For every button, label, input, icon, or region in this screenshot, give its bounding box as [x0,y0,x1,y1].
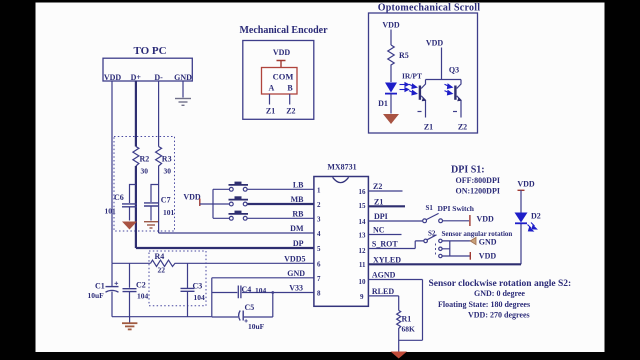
svg-text:A: A [269,84,275,93]
svg-text:VDD5: VDD5 [284,254,305,263]
svg-text:VDD: VDD [517,180,535,189]
svg-text:104: 104 [194,293,206,302]
svg-text:TO PC: TO PC [133,45,166,57]
svg-text:Z1: Z1 [374,197,383,206]
svg-text:NC: NC [373,226,385,235]
svg-text:5: 5 [317,245,321,253]
svg-text:9: 9 [360,293,364,301]
svg-text:15: 15 [359,202,367,210]
svg-text:VDD: VDD [382,21,400,30]
svg-text:S_ROT: S_ROT [372,240,398,249]
svg-text:OFF:800DPI: OFF:800DPI [456,176,500,185]
svg-text:S2: S2 [428,229,436,237]
svg-text:GND: GND [287,269,305,278]
svg-text:Z1: Z1 [424,123,433,132]
svg-text:VDD: VDD [477,214,495,223]
svg-text:14: 14 [359,218,367,226]
svg-text:DPI: DPI [374,212,388,221]
svg-text:VDD: VDD [273,48,291,57]
svg-text:101: 101 [163,208,175,217]
svg-text:Sensor clockwise rotation angl: Sensor clockwise rotation angle S2: [429,279,572,289]
svg-text:1: 1 [317,186,321,194]
svg-text:8: 8 [317,290,321,298]
svg-text:DM: DM [290,224,304,233]
svg-text:V33: V33 [289,284,303,293]
svg-text:22: 22 [158,266,166,275]
svg-text:IR/PT: IR/PT [402,72,422,81]
svg-text:104: 104 [255,286,267,295]
svg-text:B: B [287,84,293,93]
svg-text:101: 101 [105,207,117,216]
svg-text:C7: C7 [161,196,171,205]
svg-text:104: 104 [137,292,149,301]
svg-text:2: 2 [317,201,321,209]
svg-text:R1: R1 [402,315,412,324]
svg-text:30: 30 [141,167,149,176]
svg-text:DP: DP [293,239,304,248]
svg-text:R4: R4 [155,252,165,261]
svg-text:D-: D- [154,73,163,82]
svg-text:GND: 0 degree: GND: 0 degree [474,289,525,298]
svg-text:AGND: AGND [372,271,396,280]
svg-text:3: 3 [317,215,321,223]
svg-text:Floating State: 180 degrees: Floating State: 180 degrees [438,300,530,309]
svg-text:DPI S1:: DPI S1: [451,165,485,176]
svg-text:Z1: Z1 [266,107,275,116]
svg-text:Z2: Z2 [286,107,295,116]
svg-text:Q3: Q3 [449,66,459,75]
svg-text:R5: R5 [399,51,409,60]
svg-text:D2: D2 [531,212,541,221]
svg-text:Optomechanical Scroll: Optomechanical Scroll [378,3,481,14]
svg-text:C1: C1 [95,282,105,291]
svg-text:16: 16 [359,188,367,196]
svg-text:ON:1200DPI: ON:1200DPI [456,187,500,196]
svg-text:VDD: VDD [479,252,497,261]
svg-text:R2: R2 [140,155,150,164]
svg-text:C4: C4 [242,285,252,294]
svg-text:C6: C6 [114,193,124,202]
svg-text:10: 10 [359,278,367,286]
svg-text:VDD: 270 degrees: VDD: 270 degrees [468,311,530,320]
svg-text:R3: R3 [162,155,172,164]
svg-text:RB: RB [292,209,304,218]
svg-text:XYLED: XYLED [373,255,401,264]
svg-text:6: 6 [317,260,321,268]
svg-text:C2: C2 [136,281,146,290]
svg-text:Sensor angular rotation: Sensor angular rotation [442,230,513,238]
svg-text:COM: COM [273,72,294,82]
svg-text:Z2: Z2 [458,123,467,132]
svg-text:D1: D1 [378,99,388,108]
svg-text:VDD: VDD [183,193,201,202]
svg-text:C5: C5 [245,303,255,312]
svg-text:C3: C3 [193,282,203,291]
svg-text:7: 7 [317,275,321,283]
svg-text:68K: 68K [402,325,416,334]
svg-text:30: 30 [164,167,172,176]
svg-text:DPI Switch: DPI Switch [438,204,475,213]
svg-text:S1: S1 [426,204,434,212]
svg-text:GND: GND [174,73,192,82]
svg-text:D+: D+ [131,73,142,82]
svg-text:RLED: RLED [372,287,394,296]
svg-text:VDD: VDD [426,39,444,48]
svg-text:MB: MB [291,195,305,204]
svg-text:VDD: VDD [104,73,122,82]
svg-text:11: 11 [359,261,366,269]
svg-text:10uF: 10uF [248,322,265,331]
svg-text:10uF: 10uF [88,291,105,300]
svg-text:4: 4 [317,230,321,238]
svg-text:Mechanical Encoder: Mechanical Encoder [239,25,328,36]
svg-text:LB: LB [293,180,304,189]
svg-text:13: 13 [359,232,367,240]
svg-text:GND: GND [479,237,497,246]
svg-text:MX8731: MX8731 [327,163,356,172]
svg-text:Z2: Z2 [373,182,382,191]
svg-text:12: 12 [359,247,367,255]
